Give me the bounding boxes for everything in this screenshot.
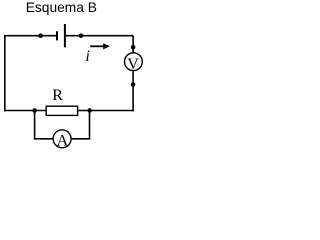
battery B1 long plate (positive) [64, 24, 66, 47]
node dot below voltmeter [131, 82, 136, 87]
voltmeter V [124, 53, 142, 71]
node dot left of resistor [32, 108, 37, 113]
wire top (left segment to battery short plate) [5, 35, 57, 37]
wire ammeter branch right horizontal [72, 138, 91, 140]
ammeter A [53, 130, 71, 148]
svg-text:R: R [52, 87, 63, 104]
wire middle horizontal right [78, 110, 134, 112]
svg-text:A: A [57, 132, 69, 149]
wire right vertical (top corner to voltmeter) [132, 36, 134, 53]
node dot above voltmeter [131, 45, 136, 50]
wire right vertical (voltmeter to bottom corner) [132, 71, 134, 111]
svg-text:V: V [127, 56, 139, 73]
battery B1 short plate (negative) [56, 31, 58, 40]
node dot right of battery [79, 33, 84, 38]
wire left vertical [4, 35, 6, 111]
wire middle horizontal left [4, 110, 46, 112]
wire ammeter branch left vertical [34, 111, 36, 140]
wire ammeter branch left horizontal [34, 138, 53, 140]
resistor R [46, 106, 77, 115]
current arrow i [90, 45, 104, 47]
wire ammeter branch right vertical [89, 111, 91, 139]
svg-text:Esquema B: Esquema B [26, 0, 97, 15]
svg-text:i: i [86, 48, 90, 65]
wire top (battery long plate to top-right corner) [65, 35, 133, 37]
node dot left of battery [38, 33, 43, 38]
node dot right of resistor [87, 108, 92, 113]
